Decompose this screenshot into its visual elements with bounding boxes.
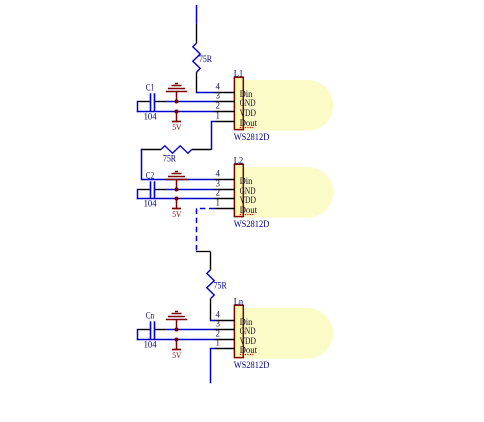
power port 5V [172,199,182,220]
svg-text:C1: C1 [146,83,154,93]
wire: R1 to L1 pin4 [196,92,215,94]
svg-text:WS2812D: WS2812D [234,133,270,143]
resistor R2 75R [141,146,211,164]
capacitor Cn 104 [138,311,166,350]
svg-text:104: 104 [144,199,157,209]
wire: R3 to Ln pin4 [210,320,215,322]
wire: L1 Dout down to R2 [212,122,215,151]
junction: GND net [174,99,178,103]
svg-text:3: 3 [215,318,220,328]
svg-text:GND: GND [240,326,256,336]
capacitor C1 104 [138,83,166,122]
wire: C1 left loop [137,101,139,112]
wire: Ln Dout output [211,349,215,384]
svg-text:5V: 5V [172,350,182,360]
LED L2 WS2812D [215,156,334,231]
svg-text:VDD: VDD [240,108,257,118]
wire: data input from top [196,5,198,23]
junction: 5V net [174,196,178,200]
svg-text:WS2812D: WS2812D [234,220,270,230]
wire: GND net to Ln pin3 [166,329,215,331]
svg-text:Cn: Cn [146,311,155,321]
resistor R3 75R [207,252,227,321]
wire: VDD net to L2 pin2 [137,198,215,200]
power port 5V [172,340,182,361]
svg-text:5V: 5V [172,122,182,132]
svg-text:75R: 75R [214,281,227,291]
svg-text:GND: GND [240,98,256,108]
dashed wire: L2 Dout continuation [196,209,215,253]
svg-text:4: 4 [215,168,220,178]
wire: C2 left loop [137,189,139,199]
wire: chain jog to R3 [196,251,211,253]
svg-text:Dout: Dout [240,118,258,128]
svg-text:5V: 5V [172,209,182,219]
svg-text:75R: 75R [199,54,212,64]
junction: GND net [174,327,178,331]
junction: 5V net [174,109,178,113]
power port 5V [172,112,182,133]
svg-text:L1: L1 [234,69,244,79]
svg-text:WS2812D: WS2812D [234,361,270,371]
LED Ln WS2812D [215,297,334,372]
resistor R1 75R [193,23,212,92]
svg-text:C2: C2 [146,171,154,181]
svg-text:Dout: Dout [240,205,258,215]
svg-text:104: 104 [144,112,157,122]
power port GND (earth) [166,172,187,190]
svg-text:VDD: VDD [240,195,257,205]
svg-text:1: 1 [215,110,220,120]
svg-text:Ln: Ln [234,297,244,307]
power port GND (earth) [166,84,187,102]
svg-text:104: 104 [144,340,157,350]
svg-text:Dout: Dout [240,345,258,355]
wire: Cn left loop [137,329,139,340]
svg-text:Din: Din [240,176,253,186]
svg-text:1: 1 [215,337,220,347]
wire: VDD net to Ln pin2 [137,339,215,341]
LED L1 WS2812D [215,69,334,144]
wire: VDD net to L1 pin2 [137,111,215,113]
power port GND (earth) [166,312,187,330]
junction: 5V net [174,337,178,341]
junction: GND net [174,187,178,191]
svg-text:2: 2 [215,100,220,110]
wire: R2 to L2 pin4 [142,149,216,180]
svg-text:3: 3 [215,90,220,100]
svg-text:L2: L2 [234,156,244,166]
svg-text:75R: 75R [163,154,176,164]
wire: GND net to L1 pin3 [166,101,215,103]
wire: GND net to L2 pin3 [166,189,215,191]
svg-text:1: 1 [215,197,220,207]
svg-text:2: 2 [215,187,220,197]
capacitor C2 104 [138,171,166,209]
